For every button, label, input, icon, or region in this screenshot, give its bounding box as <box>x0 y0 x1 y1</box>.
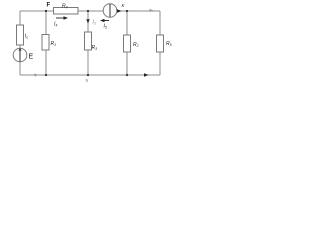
svg-text:E: E <box>29 54 34 61</box>
svg-text:F: F <box>47 3 51 9</box>
